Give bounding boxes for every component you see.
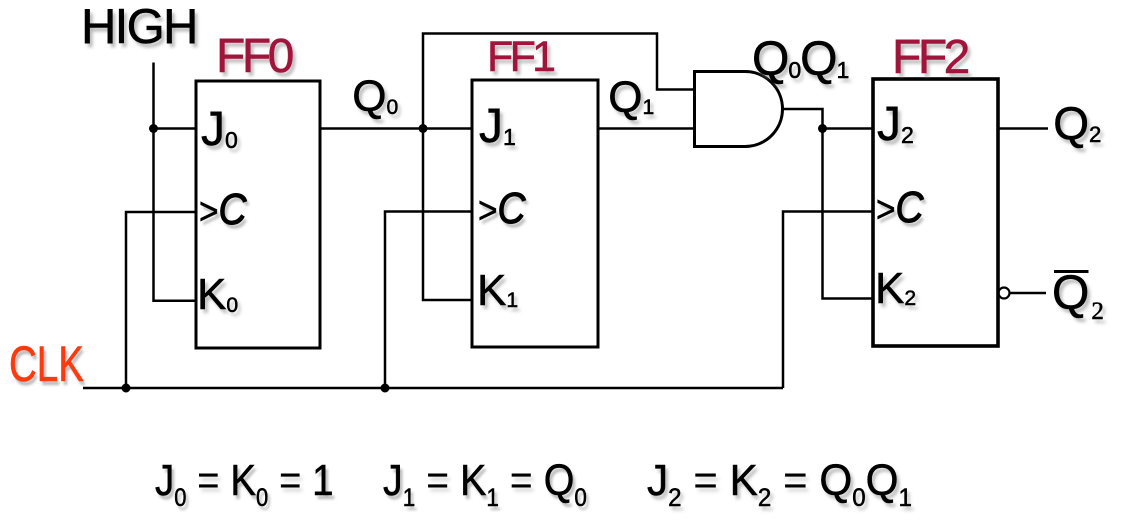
overbar of Q2bar label bbox=[1054, 270, 1089, 273]
node AND/J2 junction bbox=[818, 124, 827, 133]
wire CLK riser FF2 to >C bbox=[783, 212, 873, 389]
wire Q0 from FF0 to J1 bbox=[320, 127, 472, 130]
flip-flop FF1 box bbox=[472, 80, 598, 347]
pin label K0 bbox=[197, 273, 238, 317]
label Q1 bbox=[608, 76, 654, 120]
pin label K2 bbox=[875, 267, 916, 311]
AND gate bbox=[695, 72, 783, 147]
pin label J2 bbox=[877, 101, 914, 149]
label FF2 bbox=[892, 34, 967, 82]
pin label J0 bbox=[201, 106, 238, 154]
equation J2=K2=Q0Q1 bbox=[647, 459, 912, 503]
node Q0 junction bbox=[419, 124, 428, 133]
wire Q2 output bbox=[998, 127, 1048, 130]
label FF0 bbox=[216, 33, 291, 81]
equation J1=K1=Q0 bbox=[383, 459, 587, 503]
wire Q2bar output bbox=[1010, 292, 1046, 295]
label CLK bbox=[9, 339, 84, 389]
flip-flop FF2 box bbox=[873, 79, 998, 346]
node CLK/FF0 junction bbox=[122, 384, 131, 393]
wire J0 input bbox=[154, 127, 198, 130]
label Q2bar bbox=[1052, 270, 1104, 318]
pin label C2 bbox=[876, 186, 924, 230]
wire Q0 feedback down to K1 bbox=[423, 129, 472, 301]
label Q0 bbox=[352, 75, 398, 119]
wire CLK main line bbox=[83, 387, 783, 390]
label Q0Q1 above AND bbox=[752, 36, 848, 84]
node HIGH/J0 junction bbox=[149, 124, 158, 133]
pin label C1 bbox=[478, 187, 526, 231]
wire HIGH vertical with K0 stub bbox=[154, 63, 197, 301]
label FF1 bbox=[487, 36, 552, 79]
label Q2 bbox=[1053, 100, 1101, 146]
pin label C0 bbox=[199, 188, 247, 232]
equation J0=K0=1 bbox=[155, 459, 334, 503]
bubble on Q2bar bbox=[999, 288, 1010, 299]
wire J2 input bbox=[823, 127, 874, 130]
wire AND output to J2 and down to K2 bbox=[783, 109, 874, 299]
label HIGH bbox=[81, 3, 197, 52]
wire CLK riser FF1 to >C bbox=[385, 212, 472, 389]
flip-flop FF0 box bbox=[196, 81, 320, 348]
pin label J1 bbox=[479, 103, 516, 151]
wire CLK riser FF0 to >C bbox=[126, 212, 197, 388]
pin label K1 bbox=[477, 269, 518, 313]
wire Q1 from FF1 to AND lower input bbox=[598, 127, 694, 130]
wire Q0 feedback up over FF1 to AND upper input bbox=[423, 34, 694, 129]
node CLK/FF1 junction bbox=[381, 384, 390, 393]
